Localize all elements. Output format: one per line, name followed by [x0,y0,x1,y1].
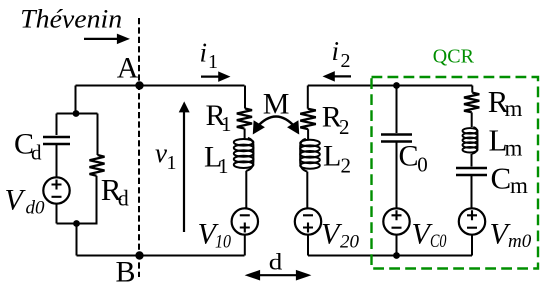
svg-text:V: V [5,184,27,217]
svg-text:i: i [332,36,340,66]
svg-text:2: 2 [339,115,350,139]
svg-text:L: L [323,140,341,173]
svg-text:1: 1 [221,112,232,136]
svg-text:QCR: QCR [433,46,475,68]
svg-text:10: 10 [215,231,231,252]
svg-text:1: 1 [208,51,218,73]
svg-text:d: d [118,186,129,211]
svg-text:d0: d0 [26,198,46,219]
svg-text:v: v [155,138,167,168]
svg-text:m0: m0 [508,231,532,252]
svg-text:m: m [510,173,528,198]
svg-text:A: A [117,52,139,85]
svg-text:i: i [200,38,208,68]
svg-text:M: M [263,88,290,121]
svg-text:m: m [505,96,523,121]
svg-text:1: 1 [167,152,177,174]
svg-text:1: 1 [218,154,229,178]
svg-text:2: 2 [341,50,351,72]
svg-text:m: m [505,135,523,160]
svg-text:d: d [269,250,283,276]
svg-text:Thévenin: Thévenin [20,4,122,33]
svg-text:C: C [491,161,512,196]
svg-text:d: d [31,141,42,165]
svg-text:0: 0 [417,153,428,177]
svg-text:C0: C0 [430,231,447,252]
svg-text:B: B [116,256,136,289]
svg-text:2: 2 [341,154,352,178]
svg-text:20: 20 [340,231,360,252]
svg-text:C: C [399,140,419,173]
